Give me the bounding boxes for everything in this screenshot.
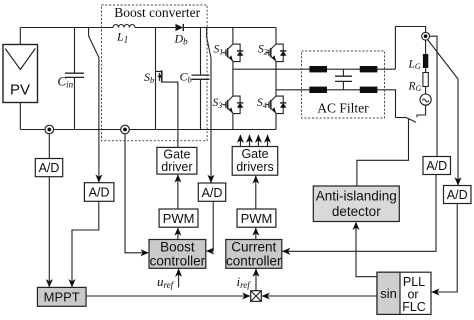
svg-text:sin: sin (380, 286, 397, 301)
multiplier (X in box) (251, 291, 262, 302)
svg-text:controller: controller (150, 254, 206, 269)
svg-text:PV: PV (10, 82, 30, 99)
svg-text:MPPT: MPPT (44, 290, 80, 305)
Anti-islanding detector box (313, 186, 399, 222)
A/D box 3 (198, 183, 225, 201)
MPPT box (37, 287, 86, 306)
wire multiplier to Current controller (iref) (255, 269, 257, 291)
sin / PLL or FLC box (377, 272, 431, 314)
filter capacitor (335, 69, 352, 90)
wire A/D1 to MPPT (48, 177, 50, 287)
wire Lg to Rg (425, 68, 427, 73)
A/D box 5 (444, 186, 472, 204)
sense tap 1: kinked line from DC+ rail to A/D (89, 28, 99, 183)
wire switch to AC line B (396, 117, 407, 119)
node 1 on DC- rail (45, 125, 54, 134)
svg-text:S4: S4 (257, 97, 267, 110)
svg-text:Cin: Cin (58, 74, 74, 90)
PWM box 2 (237, 209, 276, 227)
svg-text:detector: detector (332, 204, 381, 219)
inductor L1 (113, 25, 135, 45)
Current controller box (226, 240, 282, 269)
grid switch blade (406, 118, 416, 123)
H-bridge left leg wire (232, 28, 234, 130)
svg-text:PWM: PWM (163, 211, 195, 226)
wire A/D4 to Current controller (283, 175, 437, 252)
svg-text:Anti-islanding: Anti-islanding (316, 189, 397, 204)
wire PV bottom to DC- rail (19, 103, 21, 130)
wire MOSFET gate to Gate driver (162, 82, 178, 147)
IGBT S3 (213, 96, 233, 113)
svg-text:A/D: A/D (202, 186, 223, 200)
uref arrow into Boost controller (178, 269, 180, 288)
svg-text:drivers: drivers (236, 160, 274, 174)
IGBT S1 (214, 44, 233, 61)
wire PWM2 to Gate drivers (255, 176, 257, 209)
filter inductor block top-right (360, 66, 378, 72)
filter inductor block bottom-left (309, 87, 327, 93)
A/D box 2 (84, 183, 114, 202)
Boost converter dashed box (102, 5, 208, 141)
wire node1 to A/D1 (48, 134, 50, 159)
svg-text:Sb: Sb (144, 70, 154, 85)
node branch to A/D 4 (430, 36, 438, 156)
svg-text:Boost converter: Boost converter (114, 5, 200, 20)
svg-text:LG: LG (408, 59, 421, 72)
wire A/D2 to MPPT (72, 201, 99, 287)
svg-text:A/D: A/D (426, 159, 447, 173)
H-bridge right leg wire (275, 28, 277, 130)
svg-text:iref: iref (237, 274, 252, 290)
wire A/D5 to PLL (432, 204, 458, 293)
diode of S3 (233, 96, 243, 114)
DC- bottom rail (20, 129, 276, 131)
capacitor Cin (58, 28, 85, 130)
wire sin/PLL to Anti-islanding detector (356, 222, 377, 277)
svg-text:PWM: PWM (241, 211, 273, 226)
diode of S4 (276, 96, 286, 114)
Boost controller box (149, 240, 206, 269)
PV panel (3, 45, 38, 103)
diode of S1 (233, 44, 243, 62)
wire Rg to source (425, 87, 427, 95)
svg-text:RG: RG (408, 81, 422, 94)
svg-text:S1: S1 (214, 44, 224, 57)
wire Current controller to PWM2 (255, 228, 257, 240)
inductor Lg (423, 54, 428, 68)
diode of S2 (276, 44, 286, 62)
svg-text:uref: uref (157, 274, 175, 290)
MOSFET Sb (144, 28, 162, 130)
wire Boost controller to PWM1 (177, 228, 179, 240)
IGBT S4 (257, 96, 276, 113)
svg-text:S2: S2 (258, 44, 268, 57)
svg-text:Boost: Boost (160, 240, 195, 255)
svg-text:Gate: Gate (241, 147, 268, 161)
node 2 on DC- rail (121, 125, 130, 134)
wire PV top to DC+ rail (19, 28, 21, 45)
wire sin to multiplier (262, 295, 377, 297)
wire A/D3 to Boost controller (206, 201, 213, 251)
filter inductor block top-left (309, 66, 327, 72)
PWM box 1 (159, 209, 198, 227)
AC output line B (276, 90, 396, 118)
resistor Rg (423, 73, 428, 87)
svg-text:A/D: A/D (39, 161, 60, 175)
svg-text:A/D: A/D (89, 186, 110, 200)
capacitor Cb (180, 28, 210, 130)
gate drive arrow 2 to S2 (249, 135, 251, 147)
wire PWM1 to Gate driver (177, 175, 179, 209)
node diagonal branch to A/D 5 (428, 40, 459, 186)
svg-text:FLC: FLC (402, 300, 426, 314)
gate drive arrow 1 to S1 (239, 135, 241, 147)
wire node to Lg (425, 40, 427, 54)
A/D box 1 (35, 159, 62, 177)
gate drive arrow 4 to S4 (267, 135, 269, 147)
svg-text:Current: Current (231, 240, 276, 255)
svg-text:driver: driver (161, 160, 192, 174)
svg-text:AC Filter: AC Filter (317, 101, 369, 116)
diode Db (174, 24, 189, 47)
A/D box 4 (423, 157, 451, 175)
svg-text:Cb: Cb (180, 70, 192, 85)
sense tap 2: kinked line from DC+ rail to A/D (207, 28, 211, 183)
svg-text:S3: S3 (213, 97, 223, 110)
AC output line A (233, 68, 396, 70)
svg-text:L1: L1 (116, 30, 128, 45)
AC grid source (420, 94, 431, 105)
sense line from grid switch down to anti-islanding detector (357, 119, 409, 186)
svg-text:controller: controller (226, 254, 282, 269)
wire node2 to Boost controller (125, 134, 148, 253)
DC+ top rail (20, 27, 276, 29)
IGBT S2 (258, 44, 276, 61)
AC Filter dashed box (302, 51, 385, 118)
gate drive arrow 3 to S3 (257, 135, 259, 147)
svg-text:Db: Db (174, 32, 189, 47)
wire filter to grid node (395, 27, 425, 70)
Gate drivers box (232, 147, 278, 176)
grid node (422, 32, 430, 40)
wire MPPT to multiplier (86, 295, 250, 297)
Gate driver box (157, 147, 197, 174)
filter inductor block bottom-right (360, 87, 378, 93)
wire source to switch (417, 105, 426, 117)
svg-text:A/D: A/D (447, 188, 468, 202)
